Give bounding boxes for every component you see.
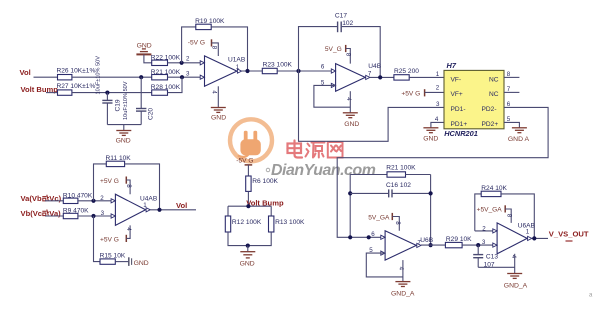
svg-text:Vb(Vc: Vb(Vc: [21, 209, 43, 218]
svg-text:C16 102: C16 102: [386, 182, 411, 189]
node Va input: [21, 194, 62, 203]
svg-text:C19: C19: [115, 99, 122, 111]
wire 5V_G to U4B pin8: [346, 49, 351, 64]
svg-text:R12 100K: R12 100K: [232, 219, 262, 226]
watermark ring logo: [230, 119, 272, 161]
svg-text:2: 2: [186, 56, 190, 63]
node Volt Bump (input): [21, 85, 59, 94]
svg-text:1: 1: [436, 71, 440, 78]
pin number 5 U6B: [369, 247, 373, 254]
resistor R13: [269, 216, 306, 232]
pin number 4 H7: [435, 116, 439, 123]
resistor R25: [394, 68, 419, 80]
wire U6B feedback right vertical: [430, 175, 432, 246]
node Vb input: [21, 209, 62, 218]
svg-text:+5V G: +5V G: [401, 90, 420, 97]
resistor R21: [151, 69, 181, 80]
ground GND_A below U6B: [391, 282, 415, 298]
resistor R12: [225, 216, 262, 232]
svg-text:4: 4: [510, 255, 517, 259]
svg-text:-5V G: -5V G: [236, 158, 253, 165]
capacitor C16: [350, 182, 430, 198]
capacitor C17: [335, 12, 354, 32]
wire +5V G to U4A pin4: [126, 225, 130, 238]
svg-text:R24 10K: R24 10K: [481, 185, 507, 192]
svg-text:R21 100K: R21 100K: [386, 165, 416, 172]
wire R21b right: [406, 174, 431, 176]
op-amp U6AB: [493, 223, 536, 254]
junction U4B pin6 node: [296, 69, 300, 73]
wire divider node: [228, 205, 271, 207]
svg-text:1: 1: [526, 228, 530, 235]
pin label PD2+: [482, 121, 499, 128]
wire R26 to R21: [72, 76, 152, 78]
ground GND bar port: [129, 257, 149, 267]
resistor R24: [481, 185, 507, 196]
wire +5V G to U4A pin8: [126, 180, 130, 194]
pin number 4 U1AB: [210, 90, 217, 94]
wire R10 to U4A pin2: [78, 200, 116, 202]
resistor R27: [57, 83, 96, 95]
watermark chinese char wang: [328, 142, 343, 158]
svg-text:R6 100K: R6 100K: [252, 178, 278, 185]
svg-text:10uF±10% 50V: 10uF±10% 50V: [96, 56, 102, 95]
pin number 2 U1AB: [186, 56, 190, 63]
ground GND below U4B: [343, 113, 360, 128]
svg-text:+5V G: +5V G: [100, 178, 119, 185]
svg-text:C20: C20: [148, 108, 155, 120]
resistor R22: [151, 54, 181, 65]
svg-text:8: 8: [345, 53, 352, 57]
svg-text:R19 100K: R19 100K: [195, 18, 225, 25]
svg-text:Vol: Vol: [176, 201, 187, 210]
power port -5V G: [188, 39, 212, 46]
junction C20 tap: [139, 75, 143, 79]
junction U6B pin6 node left: [348, 235, 352, 239]
svg-text:+5V_GA: +5V_GA: [477, 207, 503, 214]
ground GND below divider: [240, 252, 256, 268]
svg-text:10uF±10% 50V: 10uF±10% 50V: [123, 81, 129, 120]
wire H7 pin8 stub: [504, 76, 519, 78]
svg-text:8: 8: [394, 221, 401, 225]
pin number 7 H7: [507, 86, 511, 93]
junction pin2 node: [180, 61, 184, 65]
svg-text:3: 3: [101, 210, 105, 217]
svg-text:R22 100K: R22 100K: [151, 54, 181, 61]
junction R24 out: [532, 236, 536, 240]
svg-text:R29 10K: R29 10K: [446, 236, 472, 243]
junction C13 tap: [476, 243, 480, 247]
svg-text:GND: GND: [211, 115, 226, 122]
power port -5V G divider: [236, 158, 253, 165]
svg-text:NC: NC: [489, 76, 499, 83]
op-amp U4AB: [111, 194, 158, 225]
junction U4A out feedback: [157, 208, 161, 212]
resistor R23: [262, 61, 292, 73]
svg-text:Vol: Vol: [20, 68, 31, 77]
watermark plug cord: [239, 153, 249, 157]
pin number 8 U4B: [345, 53, 352, 57]
junction C16 right: [429, 191, 433, 195]
wire C13 bottom to gnd: [478, 266, 515, 268]
pin number 8 U6B: [394, 221, 401, 225]
power port +5V G: [401, 89, 424, 97]
wire caps bottom join: [107, 124, 141, 126]
stray mark bottom right: [589, 293, 593, 299]
wire R6 to Volt Bump node: [247, 191, 249, 206]
wire U6B pin5 bracket to gnd: [366, 253, 403, 277]
pin label VF+: [451, 91, 463, 98]
node Volt Bump (divider): [246, 199, 284, 208]
op-amp U6B: [381, 231, 434, 260]
ground GND A below H7 pin5: [508, 128, 530, 143]
pin number 4 U4B: [345, 97, 352, 101]
wire R24 loop: [475, 194, 481, 231]
power port +5V G bottom U4A: [100, 235, 126, 244]
wire -5V G to U1AB pin8: [212, 43, 219, 56]
wire Va to R10: [45, 200, 63, 202]
svg-text:2: 2: [482, 225, 486, 232]
wire R27 to R28: [72, 92, 152, 94]
wire R21 to U1AB pin3: [168, 76, 205, 78]
svg-text:4: 4: [345, 97, 352, 101]
wire -5V G to R6: [247, 165, 249, 176]
node Vol (input): [20, 68, 31, 77]
svg-text:GND_A: GND_A: [391, 291, 415, 298]
svg-text:2: 2: [100, 195, 104, 202]
svg-text:U6B: U6B: [420, 237, 433, 244]
wire U1AB pin4 to gnd: [217, 86, 219, 107]
junction U6B pin6 node mid: [367, 235, 371, 239]
svg-text:DianYuan.com: DianYuan.com: [271, 162, 376, 179]
op-amp U4B: [331, 63, 381, 91]
wire C17 loop left: [299, 27, 338, 71]
svg-text:2: 2: [436, 84, 440, 91]
svg-text:PD2-: PD2-: [482, 106, 497, 113]
pin number 2 H7: [436, 84, 440, 91]
svg-text:3: 3: [436, 101, 440, 108]
power port 5V_GA: [368, 213, 392, 221]
wire R29 to U6A pin3: [462, 244, 497, 246]
svg-text:7: 7: [417, 239, 421, 246]
ground GND below H7 pin4: [423, 128, 438, 143]
svg-text:VF-: VF-: [451, 76, 462, 83]
wire H7 pin4 stub: [431, 122, 444, 127]
junction C17 out: [378, 75, 382, 79]
svg-text:7: 7: [368, 71, 372, 78]
pin number 8 H7: [507, 71, 511, 78]
pin label PD1-: [451, 106, 466, 113]
wire to R21b: [350, 174, 387, 176]
capacitor C20: [123, 77, 154, 124]
wire U4B pin5 bracket to gnd: [314, 85, 350, 107]
svg-text:8: 8: [210, 46, 217, 50]
wire to gnd: [123, 125, 125, 131]
wire R11 loop right: [125, 164, 160, 210]
svg-text:R11 10K: R11 10K: [106, 155, 132, 162]
ground GND top-left for R22: [136, 43, 151, 55]
wire to divider gnd: [247, 246, 249, 252]
pin number 8 U6A: [506, 214, 513, 218]
svg-text:R23 100K: R23 100K: [263, 61, 293, 68]
svg-text:8: 8: [125, 184, 132, 188]
svg-text:6: 6: [371, 231, 375, 238]
svg-text:GND: GND: [423, 136, 438, 143]
IC H7 HCNR201 body: [444, 61, 504, 138]
wire R24 to out: [501, 194, 534, 239]
power port +5V_GA: [477, 205, 506, 213]
wire node to R12: [227, 206, 229, 216]
resistor R19: [195, 18, 225, 30]
pin number 3 U6A: [482, 239, 486, 246]
wire Vol to R26: [34, 76, 58, 78]
wire Volt Bump to R27: [46, 92, 58, 94]
pin label PD1+: [451, 121, 468, 128]
watermark plug icon: [240, 131, 260, 156]
svg-text:GND: GND: [344, 121, 359, 128]
wire pin3 node to R15: [94, 216, 101, 262]
svg-text:R26 10K±1%: R26 10K±1%: [57, 67, 96, 74]
wire U6A out: [532, 237, 548, 239]
resistor R21 bottom: [386, 165, 416, 178]
pin label VF-: [451, 76, 462, 83]
svg-text:R27 10K±1%: R27 10K±1%: [57, 83, 96, 90]
wire node to R13: [270, 206, 272, 216]
pin label NC second: [489, 91, 499, 98]
pin number 8 U4A: [125, 184, 132, 188]
node Vol (output): [176, 201, 187, 210]
resistor R11: [106, 155, 132, 167]
pin number 3 U4A: [101, 210, 105, 217]
resistor R28: [151, 84, 181, 95]
wire H7 pin3 route to U4B pin6 node: [299, 71, 445, 141]
op-amp U1AB: [200, 56, 246, 86]
power port 5V_G: [325, 45, 346, 53]
wire C17 loop right: [342, 27, 380, 78]
svg-text:8: 8: [507, 71, 511, 78]
svg-text:7: 7: [507, 86, 511, 93]
svg-text:R25 200: R25 200: [394, 68, 419, 75]
resistor R9: [63, 208, 89, 219]
svg-text:3: 3: [186, 70, 190, 77]
resistor R10: [63, 192, 93, 203]
wire H7 pin5 stub: [504, 122, 519, 127]
wire +5V_GA to U6A pin8: [505, 209, 511, 223]
junction feedback out: [245, 69, 249, 73]
wire U6B pin4 to gnd: [402, 260, 404, 281]
pin number 5 H7: [507, 116, 511, 123]
watermark chinese char dian: [288, 141, 303, 158]
junction Volt Bump node: [246, 204, 250, 208]
pin number 3 U1AB: [186, 70, 190, 77]
svg-text:4: 4: [435, 116, 439, 123]
svg-text:1: 1: [143, 202, 147, 209]
svg-text:U4B: U4B: [368, 63, 381, 70]
resistor R15: [100, 252, 126, 264]
svg-text:R21 100K: R21 100K: [151, 69, 181, 76]
wire U1AB out to R23: [242, 70, 263, 72]
svg-text:3: 3: [482, 239, 486, 246]
svg-text:R28 100K: R28 100K: [151, 84, 181, 91]
svg-text:Va(Vb: Va(Vb: [21, 194, 42, 203]
wire 5V_GA to U6B pin8: [392, 217, 399, 231]
wire U4B out to R25: [370, 76, 394, 78]
power port +5V G top U4A: [100, 177, 126, 186]
ground GND below U1AB: [211, 108, 226, 122]
svg-text:5V_G: 5V_G: [325, 46, 342, 53]
wire divider bottoms: [228, 232, 271, 246]
pin number 4 U6A: [510, 255, 517, 259]
svg-text:1: 1: [236, 64, 240, 71]
wire U4B pin4 to gnd: [349, 91, 351, 112]
resistor R6: [246, 176, 279, 191]
pin number 2 U4A: [100, 195, 104, 202]
svg-text:6: 6: [321, 63, 325, 70]
wire U6A pin4 to gnd: [514, 254, 516, 273]
wire R15 to GND bar: [115, 261, 128, 263]
pin label NC top: [489, 76, 499, 83]
ground GND below C19 C20: [116, 131, 132, 145]
wire U6B feedback left vertical: [349, 175, 351, 238]
watermark registered dot: [266, 168, 270, 172]
wire H7 pin6 route to U6B: [337, 107, 548, 237]
svg-text:PD1+: PD1+: [451, 121, 468, 128]
svg-text:GND: GND: [137, 43, 152, 50]
svg-text:H7: H7: [447, 61, 457, 70]
junction pin3 node: [180, 75, 184, 79]
svg-text:NC: NC: [489, 91, 499, 98]
svg-text:+5V G: +5V G: [100, 236, 119, 243]
svg-text:5: 5: [507, 116, 511, 123]
wire H7 pin7 stub: [504, 91, 519, 93]
junction C19 tap: [105, 91, 109, 95]
pin number 3 H7: [436, 101, 440, 108]
svg-text:5V_GA: 5V_GA: [368, 214, 390, 221]
pin label PD2-: [482, 106, 497, 113]
pin number 2 U6A: [482, 225, 486, 232]
svg-text:GND: GND: [134, 260, 149, 267]
wire feedback pin2 up: [182, 27, 196, 63]
svg-text:C17: C17: [335, 12, 347, 19]
svg-text:VF+: VF+: [451, 91, 463, 98]
pin number 1 H7: [436, 71, 440, 78]
wire R22 to U1AB pin2: [168, 62, 205, 64]
wire U6A pin2: [475, 230, 497, 232]
wire GND to R22: [144, 54, 152, 62]
svg-text:R9 470K: R9 470K: [63, 208, 89, 215]
junction U4A pin3 node: [91, 214, 95, 218]
svg-text:6: 6: [507, 101, 511, 108]
capacitor C19: [96, 56, 122, 125]
node V_VS_OUT: [549, 230, 589, 241]
svg-text:U1AB: U1AB: [228, 57, 246, 64]
resistor R26: [57, 67, 96, 80]
WATERMARK: [230, 119, 376, 179]
wire R28 up to pin3 node: [168, 77, 183, 92]
pin number 6 U6B: [371, 231, 375, 238]
wire U6B out to R29: [421, 244, 445, 246]
pin number 4 U6B: [397, 267, 404, 271]
wire +5V G to H7 pin2: [425, 91, 444, 93]
pin number 8 U1AB: [210, 46, 217, 50]
svg-text:GND_A: GND_A: [504, 282, 528, 289]
svg-text:GND: GND: [240, 261, 255, 268]
ground GND_A below U6A: [504, 274, 528, 290]
pin number 6 H7: [507, 101, 511, 108]
svg-text:V_VS_OUT: V_VS_OUT: [549, 230, 589, 239]
wire U4A out: [150, 209, 196, 211]
junction divider gnd: [246, 244, 250, 248]
svg-text:C13: C13: [486, 253, 498, 260]
svg-text:PD2+: PD2+: [482, 121, 499, 128]
pin number 6 U4B: [321, 63, 325, 70]
svg-text:GND A: GND A: [508, 136, 530, 143]
svg-text:GND: GND: [116, 137, 131, 144]
svg-text:8: 8: [506, 214, 513, 218]
watermark chinese char yuan: [306, 143, 325, 158]
capacitor C13: [473, 245, 498, 268]
svg-text:R13 100K: R13 100K: [275, 219, 305, 226]
svg-text:4: 4: [125, 227, 132, 231]
svg-text:R10 470K: R10 470K: [63, 192, 93, 199]
wire R23 to U4B pin6: [277, 70, 335, 72]
svg-text:HCNR201: HCNR201: [444, 129, 478, 138]
wire R9 to U4A pin3: [78, 215, 116, 217]
junction U6B out: [429, 243, 433, 247]
resistor R29: [445, 236, 472, 248]
wire Vb to R9: [45, 215, 63, 217]
svg-text:PD1-: PD1-: [451, 106, 466, 113]
junction U4A pin2 node: [91, 199, 95, 203]
svg-text:R15 10K: R15 10K: [100, 252, 126, 259]
wire R25 to H7 pin1: [409, 76, 444, 78]
pin number 5 U4B: [321, 79, 325, 86]
pin number 4 U4A: [125, 227, 132, 231]
svg-text:Vc): Vc): [49, 194, 61, 203]
svg-text:4: 4: [210, 90, 217, 94]
junction C16 left: [348, 191, 352, 195]
svg-text:-5V G: -5V G: [188, 40, 205, 47]
wire R11 loop left: [94, 164, 107, 201]
wire R19 to output: [211, 27, 247, 71]
